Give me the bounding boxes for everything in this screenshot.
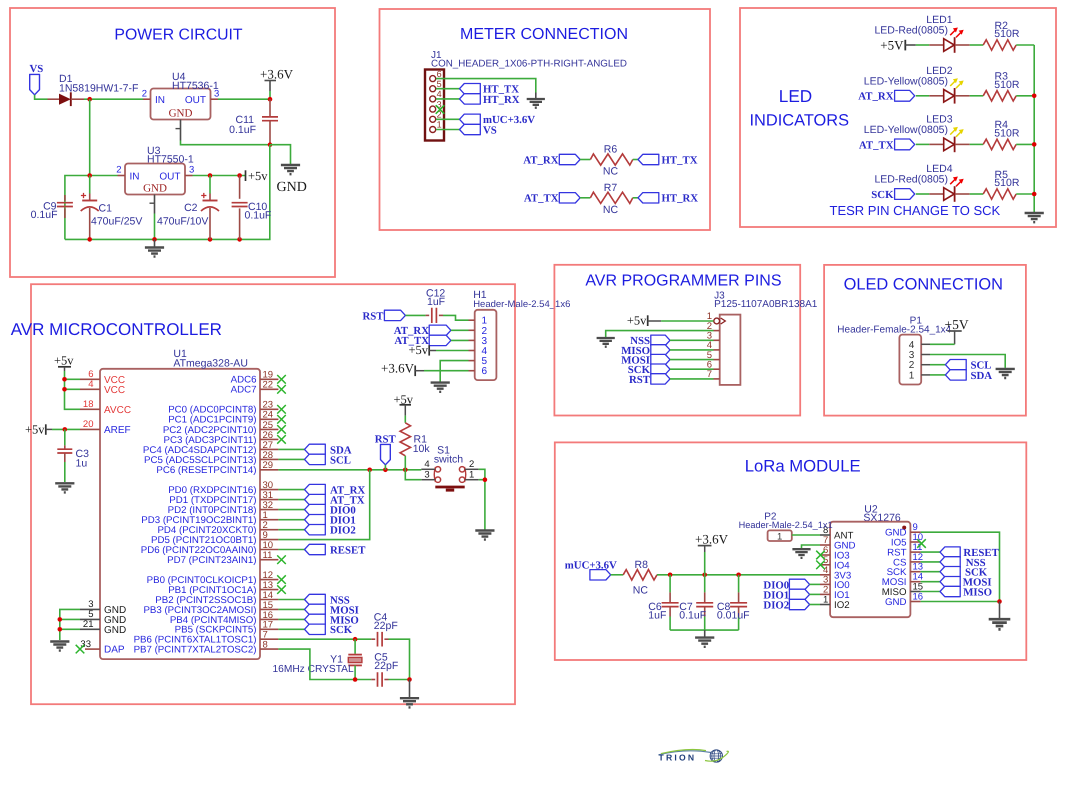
- capacitor C10: [232, 176, 248, 240]
- no-connect U2 IO4: [816, 561, 825, 570]
- net label SDA: [945, 370, 992, 382]
- net label AT_RX to H1: [394, 325, 451, 337]
- pin 10 U2 IO5: [891, 532, 923, 549]
- pin 4 U1 VCC: [80, 379, 125, 396]
- wire DIO1 to U2: [810, 593, 820, 595]
- pin 4 J3: [707, 340, 720, 351]
- svg-text:RST: RST: [629, 374, 651, 386]
- pin 1 H1: [469, 316, 488, 327]
- junction VCC pin6: [62, 377, 67, 382]
- svg-text:22pF: 22pF: [374, 620, 398, 632]
- junction C2 top: [208, 173, 213, 178]
- wire U2 to MISO tag: [921, 591, 940, 593]
- svg-text:0.1uF: 0.1uF: [31, 209, 58, 221]
- svg-text:Header-Female-2.54_1x4: Header-Female-2.54_1x4: [837, 325, 951, 336]
- svg-text:TESR PIN CHANGE TO SCK: TESR PIN CHANGE TO SCK: [830, 203, 1001, 218]
- pin 13 U2 SCK: [887, 562, 924, 579]
- wire LoRa cap ground rail: [670, 629, 739, 631]
- svg-text:0.1uF: 0.1uF: [229, 124, 256, 136]
- svg-text:AREF: AREF: [104, 425, 131, 436]
- net label HT_TX J1: [460, 84, 520, 96]
- wire U1 pin 17 to tag: [278, 628, 304, 630]
- junction C1 top: [87, 173, 92, 178]
- junction VCC pin4: [62, 387, 67, 392]
- net label DIO2 U1: [305, 525, 356, 537]
- pin 2 P1: [909, 360, 930, 371]
- wire U1 pin 31 to tag: [278, 499, 304, 501]
- svg-text:10k: 10k: [413, 443, 431, 455]
- svg-text:R8: R8: [635, 559, 649, 571]
- pin 4 U2 3V3: [820, 565, 851, 582]
- net label MOSI U1: [305, 604, 359, 616]
- power +5v above R1: [394, 392, 414, 415]
- pin 4 H1: [469, 346, 488, 357]
- svg-text:+5v: +5v: [25, 423, 45, 437]
- LED LED1: [929, 28, 969, 53]
- wire PB6 to crystal net: [278, 638, 371, 640]
- pin 3 U2 IO0: [820, 574, 850, 591]
- ground P1 pin3: [996, 369, 1015, 378]
- wire MISO to J3: [670, 349, 714, 351]
- no-connect U2 IO5: [917, 539, 926, 548]
- svg-text:CON_HEADER_1X06-PTH-RIGHT-ANGL: CON_HEADER_1X06-PTH-RIGHT-ANGLED: [431, 59, 627, 70]
- svg-text:OLED CONNECTION: OLED CONNECTION: [844, 276, 1003, 294]
- junction Y1 top: [353, 637, 358, 642]
- wire AT_RX to R6: [580, 159, 590, 161]
- pin 18 U1 AVCC: [80, 399, 131, 416]
- net label AT_TX: [524, 193, 580, 205]
- pin 2 H1: [469, 326, 488, 337]
- wire +3.6V to H1 pin6: [424, 370, 469, 372]
- wire +5v to VCC pins: [65, 371, 81, 409]
- pin 33 U1 DAP: [80, 639, 124, 656]
- pin 3 J3: [707, 331, 720, 342]
- svg-text:+3.6V: +3.6V: [260, 67, 294, 82]
- svg-text:AT_RX: AT_RX: [858, 91, 893, 103]
- junction LED row3: [1032, 142, 1037, 147]
- wire RST to J3: [670, 378, 714, 380]
- svg-text:3: 3: [189, 165, 194, 176]
- pin 13 U1 PB1: [168, 580, 278, 596]
- module U2 body: [830, 522, 910, 618]
- pin 1 J1: [430, 120, 442, 133]
- junction R1 bottom: [403, 468, 408, 473]
- pin 6 J3: [707, 359, 720, 370]
- wire U2 to NSS tag: [921, 561, 940, 563]
- wire to GND symbol: [270, 145, 291, 165]
- wire U1 pin 2 to tag: [278, 529, 304, 531]
- net label HT_RX J1: [460, 94, 520, 106]
- svg-text:INDICATORS: INDICATORS: [750, 111, 850, 129]
- wire U1 pin 10 to tag: [278, 549, 304, 551]
- wire U1 pin 32 to tag: [278, 509, 304, 511]
- pin 2 J1: [430, 110, 442, 123]
- svg-text:OUT: OUT: [185, 95, 206, 106]
- net label HT_TX: [638, 154, 698, 166]
- ground crystal net: [400, 680, 419, 708]
- pin 6 J1: [430, 69, 442, 82]
- svg-text:2: 2: [142, 89, 147, 100]
- resistor R5: [983, 189, 1016, 199]
- svg-text:18: 18: [83, 399, 94, 410]
- svg-text:HT_TX: HT_TX: [662, 154, 698, 166]
- pin 2 U4 IN: [142, 89, 151, 100]
- pin 22 U1 ADC7: [231, 380, 279, 396]
- diode D1: [48, 92, 85, 106]
- wire U1 pin 1 to tag: [278, 519, 304, 521]
- wire U2 pin16 GND: [921, 601, 1000, 603]
- pin 6 U1 VCC: [80, 369, 125, 386]
- block frame AVR MICROCONTROLLER: [31, 284, 515, 704]
- net label NSS J3: [630, 335, 670, 347]
- wire P1 pin3 to ground: [930, 355, 1005, 368]
- ground below C3: [55, 483, 74, 492]
- no-connect J1 pin3: [436, 105, 445, 114]
- power +3.6V LoRa: [695, 531, 729, 552]
- svg-text:LED: LED: [779, 86, 812, 106]
- net label mUC+3.6V LoRa: [565, 560, 617, 580]
- net label AT_RX LED row: [858, 90, 914, 102]
- wire J1 pin4: [436, 98, 460, 100]
- svg-text:470uF/10V: 470uF/10V: [157, 216, 208, 228]
- block frame POWER CIRCUIT: [10, 8, 335, 277]
- wire J1 pin6 to ground: [436, 79, 536, 93]
- net label RST to H1: [362, 310, 405, 322]
- svg-text:470uF/25V: 470uF/25V: [91, 216, 142, 228]
- junction C6 top: [668, 573, 673, 578]
- svg-text:ATmega328-AU: ATmega328-AU: [173, 357, 248, 369]
- svg-text:AVR PROGRAMMER PINS: AVR PROGRAMMER PINS: [585, 273, 781, 290]
- svg-text:P125-1107A0BR138A1: P125-1107A0BR138A1: [714, 299, 818, 310]
- net label SCK U1: [305, 624, 353, 636]
- pin 5 J3: [707, 350, 720, 361]
- wire R4 to common: [1016, 143, 1034, 145]
- wire LED1 to R2: [970, 44, 984, 46]
- pin 3 J1: [430, 99, 442, 112]
- svg-text:4: 4: [437, 89, 442, 99]
- junction rail GND: [152, 237, 157, 242]
- capacitor C1 polarized: [81, 176, 99, 240]
- wire U2 to MOSI tag: [921, 581, 940, 583]
- svg-text:TRION: TRION: [659, 753, 697, 763]
- junction LoRa ground: [997, 599, 1002, 604]
- svg-text:RST: RST: [362, 310, 384, 322]
- svg-text:+5V: +5V: [945, 317, 969, 332]
- ground H1 pin5: [431, 383, 450, 392]
- junction LED row4: [1032, 192, 1037, 197]
- net label NSS LoRa: [940, 557, 986, 569]
- svg-text:6: 6: [482, 366, 488, 377]
- resistor R8: [623, 570, 657, 580]
- svg-text:4: 4: [88, 379, 93, 390]
- wire SCK to J3: [670, 368, 714, 370]
- capacitor C5: [371, 672, 388, 687]
- svg-text:1uF: 1uF: [648, 609, 666, 621]
- net label MISO LoRa: [940, 586, 992, 598]
- ground below S1: [475, 531, 494, 540]
- svg-text:510R: 510R: [994, 79, 1020, 91]
- junction C10 top: [237, 173, 242, 178]
- wire D1 to U4 IN: [84, 98, 143, 100]
- svg-text:+3.6V: +3.6V: [381, 360, 415, 375]
- svg-text:6: 6: [437, 69, 442, 79]
- junction PD5 riser: [367, 468, 372, 473]
- wire junction down to U3 IN net: [89, 99, 91, 175]
- wire P1 pin2 to SCL: [930, 364, 945, 366]
- header P2 body: [768, 530, 792, 542]
- regulator U3: [125, 164, 185, 195]
- svg-text:LED-Red(0805): LED-Red(0805): [874, 25, 948, 37]
- pin 16 U1 PB4: [170, 610, 279, 626]
- svg-text:LED-Red(0805): LED-Red(0805): [874, 174, 948, 186]
- svg-text:C1: C1: [99, 203, 113, 215]
- wire U2 to SCK tag: [921, 571, 940, 573]
- capacitor C4: [371, 632, 388, 647]
- no-connect U1 pin 11: [277, 555, 286, 564]
- wire U4 GND to +3.6V rail: [181, 141, 271, 145]
- pin 14 U2 MOSI: [882, 572, 923, 589]
- wire AT_TX to H1 pin3: [451, 339, 469, 341]
- LED LED2: [929, 78, 969, 103]
- net label AT_TX U1: [305, 494, 365, 506]
- pin 6 H1: [469, 366, 488, 377]
- pin 26 U1 PC3: [164, 430, 279, 446]
- svg-text:IN: IN: [155, 95, 165, 106]
- junction GND pin5: [58, 617, 63, 622]
- svg-text:MISO: MISO: [963, 586, 992, 598]
- LED LED3: [929, 127, 969, 152]
- svg-text:DAP: DAP: [104, 645, 125, 656]
- LED LED4: [929, 177, 969, 202]
- pin 14 U1 PB2: [155, 590, 278, 606]
- regulator U4: [151, 89, 211, 120]
- wire +3.6V down to 3V3 net: [704, 552, 706, 575]
- pin 32 U1 PD2: [168, 500, 279, 516]
- no-connect DAP: [76, 645, 85, 654]
- mcu U1 body: [100, 369, 260, 659]
- no-connect U2 IO3: [816, 551, 825, 560]
- capacitor C7: [696, 575, 713, 630]
- pin 5 U2 IO4: [820, 555, 850, 572]
- wire LED4 to R5: [970, 193, 984, 195]
- net label DIO2: [763, 599, 809, 611]
- pin 3 U3 OUT: [185, 165, 194, 176]
- net port VS: [30, 63, 44, 95]
- block frame OLED CONNECTION: [824, 265, 1026, 416]
- svg-text:1uF: 1uF: [427, 296, 445, 308]
- junction rail C1: [87, 237, 92, 242]
- svg-text:29: 29: [263, 460, 274, 471]
- power +5V OLED: [945, 317, 969, 344]
- svg-text:IN: IN: [130, 171, 140, 182]
- svg-text:2: 2: [116, 165, 121, 176]
- pin 5 J1: [430, 79, 442, 92]
- svg-text:1: 1: [437, 120, 442, 130]
- svg-text:28: 28: [263, 450, 274, 461]
- pin 1 U2 IO2: [820, 595, 850, 612]
- junction rail C10: [237, 237, 242, 242]
- ground GND power circuit bottom: [145, 239, 164, 256]
- pin 9 U1 PD5: [151, 530, 278, 546]
- wire J1 pin1: [436, 129, 460, 131]
- net label MOSI LoRa: [940, 577, 992, 589]
- wire C12 to H1 pin1: [443, 315, 469, 320]
- wire R7 to HT_RX: [633, 197, 638, 199]
- ground LED block: [1025, 213, 1044, 222]
- svg-text:NC: NC: [603, 204, 619, 216]
- wire RST tag to C12: [406, 314, 426, 316]
- svg-text:1: 1: [469, 470, 474, 481]
- svg-text:Header-Male-2.54_1x6: Header-Male-2.54_1x6: [473, 299, 570, 310]
- block frame LoRa MODULE: [555, 442, 1027, 660]
- svg-text:R7: R7: [604, 182, 618, 194]
- pin 9 U2 GND: [885, 522, 921, 539]
- junction RST tag: [383, 468, 388, 473]
- logo TRION swoosh: [659, 751, 712, 755]
- no-connect U1 pin 23: [277, 405, 286, 414]
- svg-text:AT_RX: AT_RX: [523, 154, 558, 166]
- power +3.6V to H1 pin6: [381, 360, 424, 376]
- pin 11 U1 PD7: [167, 550, 278, 566]
- wire U2 pin9 GND to riser: [921, 532, 1000, 601]
- pin 30 U1 PD0: [168, 480, 278, 496]
- svg-text:GND: GND: [277, 180, 307, 195]
- svg-text:+5V: +5V: [880, 38, 904, 53]
- pin 12 U1 PB0: [147, 570, 279, 586]
- wire LED common vertical: [1033, 45, 1035, 212]
- net label VS J1: [460, 124, 497, 136]
- pin 15 U1 PB3: [143, 600, 278, 616]
- pin 21 U1 GND: [80, 619, 126, 636]
- pin 5 U1 GND: [80, 609, 126, 626]
- svg-text:R6: R6: [604, 144, 618, 156]
- no-connect U1 pin 26: [277, 435, 286, 444]
- net label SCK LED row: [871, 189, 914, 201]
- wire S1 pins 2-1 to ground: [479, 469, 485, 529]
- pin 2 U3 IN: [116, 165, 125, 176]
- header J3 body: [720, 315, 741, 385]
- pin 19 U1 ADC6: [231, 370, 279, 386]
- svg-text:510R: 510R: [994, 127, 1020, 139]
- svg-text:METER CONNECTION: METER CONNECTION: [460, 26, 628, 43]
- wire reset net to S1 pin3: [405, 470, 421, 480]
- junction C7 top: [702, 573, 707, 578]
- net label RST J3: [629, 374, 670, 386]
- svg-text:510R: 510R: [994, 28, 1020, 40]
- wire U1 pin 15 to tag: [278, 608, 304, 610]
- svg-text:+3.6V: +3.6V: [695, 531, 729, 546]
- junction GND pin21: [58, 627, 63, 632]
- wire NSS to J3: [670, 339, 714, 341]
- wire DIO0 to U2: [810, 583, 820, 585]
- pin 2 S1: [465, 459, 479, 470]
- svg-text:GND: GND: [104, 625, 126, 636]
- svg-text:switch: switch: [434, 454, 463, 466]
- svg-text:VS: VS: [30, 63, 44, 75]
- net port RST vertical: [375, 433, 397, 465]
- wire J1 pin2: [436, 118, 460, 120]
- svg-text:SCK: SCK: [330, 624, 353, 636]
- no-connect U1 pin 22: [277, 385, 286, 394]
- wire R3 to common: [1016, 95, 1034, 97]
- net label SCL: [945, 360, 991, 372]
- ground LoRa right: [989, 602, 1011, 630]
- no-connect U1 pin 12: [277, 575, 286, 584]
- pin 3 P1: [909, 350, 930, 361]
- junction below C11: [268, 142, 273, 147]
- svg-text:PB7 (PCINT7XTAL2TOSC2): PB7 (PCINT7XTAL2TOSC2): [134, 645, 257, 656]
- svg-text:POWER CIRCUIT: POWER CIRCUIT: [114, 27, 242, 44]
- svg-text:VS: VS: [483, 124, 497, 136]
- svg-text:0.01uF: 0.01uF: [717, 609, 750, 621]
- svg-text:DIO2: DIO2: [763, 599, 789, 611]
- svg-text:SCL: SCL: [330, 454, 351, 466]
- wire U2 pin7 GND to ground: [802, 545, 821, 548]
- svg-text:SDA: SDA: [971, 370, 993, 382]
- wire GND pins to ground: [60, 609, 80, 640]
- svg-text:NC: NC: [603, 166, 619, 178]
- block frame LED INDICATORS: [740, 8, 1056, 227]
- power +5V LED1: [880, 38, 916, 53]
- block frame METER CONNECTION: [380, 9, 711, 230]
- svg-text:1: 1: [777, 531, 782, 542]
- pin 3 H1: [469, 336, 488, 347]
- junction LED row2: [1032, 94, 1037, 99]
- svg-text:3: 3: [424, 470, 429, 481]
- wire to LED2: [916, 95, 930, 97]
- svg-text:1u: 1u: [76, 458, 88, 470]
- svg-text:HT7550-1: HT7550-1: [147, 154, 194, 166]
- wire U1 pin 14 to tag: [278, 599, 304, 601]
- svg-text:0.1uF: 0.1uF: [679, 609, 706, 621]
- pin 5 H1: [469, 356, 488, 367]
- svg-text:+5v: +5v: [408, 343, 428, 357]
- svg-text:HT_RX: HT_RX: [483, 94, 520, 106]
- net label MOSI J3: [621, 354, 670, 366]
- svg-text:VCC: VCC: [104, 385, 125, 396]
- ground U2 pin7: [792, 549, 810, 558]
- no-connect U1 pin 25: [277, 425, 286, 434]
- pin 12 U2 CS: [893, 552, 923, 569]
- svg-text:AVCC: AVCC: [104, 405, 131, 416]
- pin 6 U2 IO3: [820, 545, 850, 562]
- wire +5v to J3 pin1: [661, 320, 713, 322]
- svg-text:22pF: 22pF: [374, 660, 398, 672]
- svg-text:AT_TX: AT_TX: [859, 139, 894, 151]
- wire U1 pin 30 to tag: [278, 489, 304, 491]
- wire DIO2 to U2: [810, 604, 820, 606]
- wire U1 pin 16 to tag: [278, 618, 304, 620]
- resistor R3: [983, 91, 1016, 101]
- wire to LED3: [916, 143, 930, 145]
- wire H1 pin5 to ground: [440, 361, 468, 382]
- junction C8 top: [736, 573, 741, 578]
- pin 4 S1: [421, 459, 435, 470]
- wire MOSI to J3: [670, 359, 714, 361]
- svg-text:OUT: OUT: [159, 171, 180, 182]
- capacitor C2 polarized: [201, 176, 219, 240]
- resistor R6: [590, 154, 632, 165]
- svg-text:LED-Yellow(0805): LED-Yellow(0805): [864, 76, 948, 88]
- net label NSS U1: [305, 594, 350, 606]
- pin 1 U4 GND: [176, 120, 181, 141]
- wire RST tag stub: [384, 465, 386, 470]
- pin 7 U2 GND: [820, 535, 856, 552]
- wire PD5 to reset net: [278, 470, 369, 540]
- ground LoRa caps: [695, 630, 714, 647]
- no-connect U1 pin 19: [277, 375, 286, 384]
- svg-text:GND: GND: [169, 108, 193, 120]
